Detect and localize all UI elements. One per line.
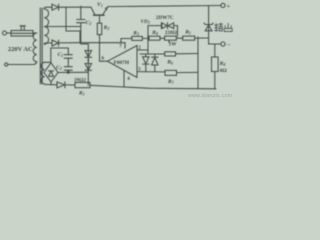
svg-text:V1: V1 — [97, 2, 103, 8]
resistor R4 — [149, 36, 160, 40]
transformer core — [40, 8, 42, 84]
bridge rectifier — [44, 63, 58, 82]
wire — [7, 32, 12, 34]
svg-text:220V AC: 220V AC — [8, 46, 33, 53]
pin6 wire — [100, 60, 108, 62]
svg-text:R5: R5 — [184, 30, 191, 36]
fuse FU — [11, 31, 33, 37]
svg-text:39Ω2: 39Ω2 — [74, 78, 86, 84]
transformer T primary winding — [33, 33, 37, 62]
cap C1 — [64, 48, 72, 67]
feedback row: R3 — [121, 38, 132, 40]
svg-text:VD3: VD3 — [141, 19, 150, 25]
center tap wire — [44, 26, 81, 28]
pin7 stub — [124, 43, 126, 49]
svg-text:www.dianzis.com: www.dianzis.com — [188, 93, 232, 99]
resistor R1 39ohm — [75, 83, 90, 88]
load resistor R8 4ohm — [214, 44, 216, 57]
rail diode VD9 — [57, 82, 65, 88]
svg-text:4Ω: 4Ω — [219, 68, 227, 74]
secondary1 bottom lead — [44, 43, 52, 44]
wire VD2 to riser — [59, 42, 80, 44]
svg-text:R1: R1 — [78, 91, 85, 97]
aux zener VD8 and junction dot — [85, 64, 92, 71]
pin3 wire — [137, 71, 165, 73]
resistor R7 — [165, 70, 177, 75]
bottom rail — [51, 82, 216, 89]
wire R2 to opamp output — [99, 35, 101, 62]
svg-text:+: + — [227, 4, 231, 10]
svg-text:220Ω: 220Ω — [165, 30, 177, 36]
transformer secondary 1 — [44, 9, 48, 44]
opamp fb resistor R6 — [165, 52, 176, 56]
svg-text:F007H: F007H — [114, 60, 130, 66]
wire top rail left — [59, 6, 91, 8]
pin4 wire — [123, 70, 125, 87]
svg-text:1W: 1W — [169, 42, 178, 48]
output - terminal — [209, 43, 221, 45]
secondary2 bottom lead — [45, 83, 57, 85]
wire — [176, 37, 182, 39]
wire — [160, 37, 165, 39]
svg-text:R2: R2 — [103, 25, 110, 31]
svg-text:−: − — [227, 43, 231, 49]
cap C3 — [64, 67, 72, 73]
svg-text:R8: R8 — [219, 61, 226, 67]
wire top rail right — [108, 6, 221, 7]
svg-text:2DW7C: 2DW7C — [156, 15, 174, 21]
svg-text:R3: R3 — [132, 30, 139, 36]
svg-text:R6: R6 — [166, 59, 173, 65]
transistor V1 — [91, 7, 95, 15]
wire — [142, 37, 149, 39]
junction stub to R3 row — [120, 39, 122, 43]
cap top wire — [51, 48, 69, 63]
secondary2 top lead — [45, 61, 51, 63]
capacitor C2 — [77, 6, 85, 44]
diode VD2 — [52, 40, 59, 46]
svg-text:C3: C3 — [56, 65, 62, 71]
protection diode VD6 — [152, 54, 158, 72]
svg-text:C1: C1 — [58, 52, 64, 58]
aux zener VD7 — [85, 51, 92, 58]
svg-text:R7: R7 — [167, 79, 175, 85]
svg-text:R4: R4 — [151, 30, 158, 36]
input terminal — [3, 31, 7, 35]
output label shuchu — [215, 23, 233, 31]
secondary 2 — [41, 62, 45, 84]
aux zener line — [81, 44, 89, 85]
wire — [195, 37, 209, 39]
bridge output wire — [58, 71, 88, 73]
primary bottom lead — [8, 62, 37, 65]
secondary1 top lead — [44, 7, 52, 9]
output + terminal — [221, 3, 225, 7]
resistor 220 ohm 1W — [165, 36, 177, 40]
resistor R2 — [97, 23, 101, 34]
riser to rail — [65, 7, 67, 31]
base lead — [99, 15, 101, 23]
resistor R5 — [183, 36, 195, 40]
zener VD4 — [208, 6, 210, 44]
opamp U1 F007 — [108, 46, 138, 78]
pin2 wire — [137, 26, 148, 54]
protection diode VD5 — [143, 54, 149, 72]
diode VD1 — [52, 4, 59, 10]
ground riser — [197, 37, 199, 89]
wire — [33, 32, 37, 34]
svg-text:C2: C2 — [86, 20, 92, 26]
opamp supply wire — [66, 31, 125, 43]
